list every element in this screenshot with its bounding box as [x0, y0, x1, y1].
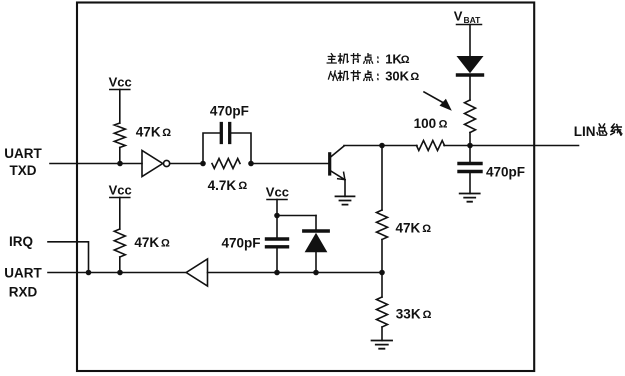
- diode D2 clamp to Vcc: [304, 231, 328, 252]
- svg-text:30K: 30K: [385, 69, 409, 84]
- power Vcc rail (TXD pull-up): [110, 89, 130, 91]
- resistor LIN master/slave pull-up (1K/30K): [465, 100, 476, 133]
- resistor 33K divider lower: [377, 297, 388, 327]
- svg-text:Ω: Ω: [401, 54, 410, 66]
- svg-text:Ω: Ω: [422, 223, 431, 235]
- svg-text:Vcc: Vcc: [109, 182, 132, 197]
- svg-text:470pF: 470pF: [210, 103, 249, 118]
- svg-text:47K: 47K: [396, 221, 421, 236]
- svg-text:Vcc: Vcc: [109, 75, 132, 90]
- resistor 4.7K series: [212, 159, 240, 169]
- node divider/RXD junction: [379, 270, 385, 276]
- resistor 47K divider upper: [377, 210, 388, 240]
- node cap/RXD junction: [274, 270, 280, 276]
- svg-text:Ω: Ω: [161, 237, 170, 249]
- svg-text:BAT: BAT: [464, 15, 482, 25]
- node RXD pull-up junction: [117, 270, 123, 276]
- node TXD pull-up junction: [117, 161, 123, 167]
- label UART TXD: [4, 146, 42, 178]
- svg-text:Ω: Ω: [410, 71, 419, 83]
- wire junction to filter cap: [276, 216, 278, 238]
- annotation line1: master node 1K ohm: [327, 52, 410, 67]
- resistor 100 ohm series to LIN: [417, 141, 445, 151]
- capacitor 470pF (parallel with 4.7K), branch wires: [203, 124, 251, 164]
- wire Vcc to RXD 47K pull-up: [119, 198, 121, 230]
- wire LIN bus line out of enclosure: [444, 145, 579, 147]
- svg-text:4.7K: 4.7K: [208, 178, 237, 193]
- svg-text:47K: 47K: [134, 235, 159, 250]
- wire RC network to transistor base: [251, 163, 328, 165]
- transistor Q1 NPN driver: [330, 146, 345, 180]
- node IRQ/RXD junction: [86, 270, 92, 276]
- svg-text:Ω: Ω: [439, 118, 448, 130]
- svg-text:V: V: [454, 8, 463, 23]
- wire IRQ lead: [48, 242, 89, 273]
- svg-text:TXD: TXD: [10, 163, 37, 178]
- wire 47K pull-up to TXD line: [119, 148, 121, 164]
- svg-text:UART: UART: [4, 146, 42, 161]
- svg-text:33K: 33K: [396, 307, 421, 322]
- wire 33K to ground: [381, 327, 383, 341]
- power V_BAT: [454, 8, 482, 25]
- ground (divider): [372, 341, 393, 349]
- label LIN bus (LIN + zongxian): [574, 124, 622, 139]
- node RC right junction: [248, 161, 254, 167]
- node Vcc clamp junction: [274, 213, 280, 219]
- node diode/RXD junction: [313, 270, 319, 276]
- svg-text:Vcc: Vcc: [266, 184, 289, 199]
- diode D1 series (reverse-battery): [458, 57, 483, 76]
- svg-text:UART: UART: [4, 265, 42, 280]
- svg-text:Ω: Ω: [238, 180, 247, 192]
- svg-text:LIN: LIN: [574, 124, 596, 139]
- annotation arrow to pull-up resistor: [424, 92, 452, 111]
- transceiver enclosure box: [77, 3, 534, 372]
- capacitor 470pF (LIN filter): [459, 164, 481, 172]
- wire buffer input from divider node: [208, 272, 383, 274]
- buffer U2 (RXD receiver, faces left): [186, 259, 207, 286]
- svg-text:Ω: Ω: [423, 309, 432, 321]
- wire VBAT to diode anode: [469, 25, 471, 57]
- power Vcc rail (RXD pull-up): [110, 197, 130, 199]
- svg-text:RXD: RXD: [9, 284, 38, 299]
- wire emitter to ground: [344, 180, 346, 197]
- svg-text:470pF: 470pF: [486, 164, 525, 179]
- node LIN pull-up junction: [467, 143, 473, 149]
- annotation line2: slave node 30K ohm: [329, 69, 420, 84]
- node collector/divider junction: [379, 143, 385, 149]
- ground (LIN filter): [460, 194, 480, 202]
- wire Vcc to 47K pull-up: [119, 90, 121, 124]
- power Vcc rail (RXD clamp): [267, 200, 287, 216]
- wire RXD 47K to RXD line: [119, 257, 121, 273]
- svg-text:47K: 47K: [136, 125, 161, 140]
- node RC left junction: [200, 161, 206, 167]
- wire RXD node to 33K: [381, 273, 383, 298]
- wire 47K to RXD node: [381, 240, 383, 273]
- wire clamp diode branch down: [315, 216, 317, 230]
- svg-text:Ω: Ω: [162, 127, 171, 139]
- inverter U1 (TXD driver): [142, 150, 170, 176]
- wire LIN junction to filter cap: [469, 146, 471, 162]
- wire pull-up resistor to LIN junction: [469, 133, 471, 146]
- ground (emitter): [336, 196, 355, 204]
- wire clamp rail to diode branch: [277, 215, 316, 217]
- label UART RXD: [4, 265, 42, 299]
- wire UART RXD lead to buffer output: [48, 272, 186, 274]
- svg-text:470pF: 470pF: [222, 235, 261, 250]
- resistor 47K RXD pull-up: [114, 229, 125, 257]
- wire RXD filter cap to RXD line: [276, 249, 278, 273]
- wire diode cathode to pull-up resistor: [469, 77, 471, 101]
- resistor 47K TXD pull-up: [114, 123, 125, 148]
- wire UART TXD lead into inverter input: [50, 163, 142, 165]
- svg-text:IRQ: IRQ: [9, 234, 33, 249]
- capacitor 470pF (RXD filter): [267, 239, 288, 247]
- wire Vcc stub down: [276, 200, 278, 216]
- wire collector to divider junction: [344, 145, 417, 147]
- svg-text:100: 100: [414, 116, 437, 131]
- wire inverter output to RC network: [170, 163, 203, 165]
- wire clamp diode to RXD line: [315, 252, 317, 273]
- wire filter cap to ground: [469, 173, 471, 193]
- wire divider junction to 47K: [381, 146, 383, 211]
